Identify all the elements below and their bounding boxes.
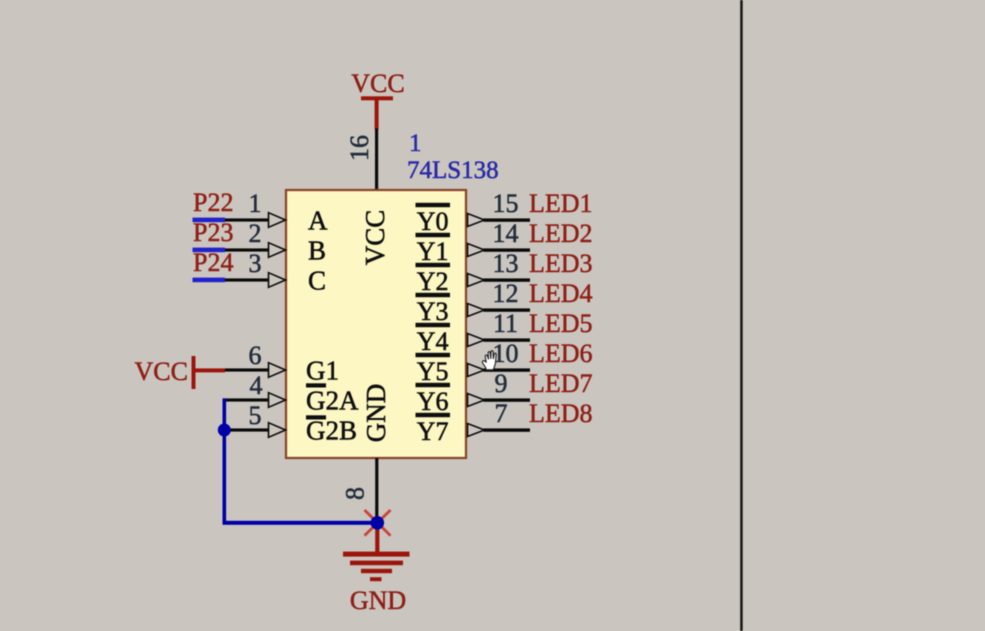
svg-text:1: 1 <box>249 189 262 218</box>
wire pin 7 <box>484 428 531 431</box>
svg-text:G2A: G2A <box>306 385 359 415</box>
pin 14 arrow <box>468 244 485 257</box>
svg-text:LED3: LED3 <box>529 249 593 278</box>
wire pin 5 <box>224 428 269 431</box>
pin 15 arrow <box>468 214 485 227</box>
wire pin 6 <box>225 368 269 371</box>
wire pin 1 <box>225 218 269 221</box>
svg-text:G2B: G2B <box>306 415 357 445</box>
svg-text:Y1: Y1 <box>417 237 449 266</box>
wire pin 9 <box>484 398 531 401</box>
svg-text:7: 7 <box>495 399 508 428</box>
pin name Y7 overline <box>416 413 451 417</box>
svg-text:Y3: Y3 <box>417 297 449 326</box>
junction dot at GND node <box>371 516 385 530</box>
svg-text:Y5: Y5 <box>417 357 449 386</box>
svg-text:1: 1 <box>409 130 422 157</box>
pin 3 arrow <box>269 273 286 288</box>
wire: VCC net to pin 16 <box>375 129 378 190</box>
svg-text:LED6: LED6 <box>529 339 593 368</box>
pin name G2A overline <box>306 383 326 387</box>
wire stub P23 (blue) <box>193 248 226 253</box>
pin 1 arrow <box>269 213 286 228</box>
pin 5 arrow <box>269 423 286 438</box>
svg-text:GND: GND <box>361 384 391 443</box>
pin 9 arrow <box>468 394 485 407</box>
pin name Y4 overline <box>416 323 451 327</box>
pin name Y6 overline <box>416 383 451 387</box>
ground symbol bar 1 <box>343 552 410 557</box>
svg-text:8: 8 <box>341 487 370 500</box>
svg-text:9: 9 <box>495 369 508 398</box>
pin name Y5 overline <box>416 353 451 357</box>
svg-text:VCC: VCC <box>360 210 390 266</box>
wire horizontal blue (to GND junction) <box>223 521 379 525</box>
IC U1 74LS138 body <box>286 190 466 458</box>
wire pin 13 <box>484 278 531 281</box>
ground symbol bar 3 <box>361 569 392 573</box>
svg-text:13: 13 <box>493 249 519 278</box>
svg-text:LED7: LED7 <box>529 369 593 398</box>
svg-text:LED2: LED2 <box>529 219 593 248</box>
svg-text:12: 12 <box>493 279 519 308</box>
svg-text:Y4: Y4 <box>417 327 449 356</box>
pin name Y2 overline <box>416 263 451 267</box>
svg-text:LED5: LED5 <box>529 309 593 338</box>
svg-text:74LS138: 74LS138 <box>407 157 499 184</box>
svg-text:6: 6 <box>249 341 262 370</box>
svg-text:16: 16 <box>345 135 374 161</box>
svg-text:P24: P24 <box>193 248 233 277</box>
svg-text:5: 5 <box>249 401 262 430</box>
pin 2 arrow <box>269 243 286 258</box>
pin 11 arrow <box>468 334 485 347</box>
pin name Y1 overline <box>416 233 451 237</box>
svg-text:VCC: VCC <box>351 69 404 98</box>
pin 12 arrow <box>468 304 485 317</box>
pin name Y0 overline <box>416 203 451 207</box>
ground stub wire <box>375 523 379 553</box>
pin name Y3 overline <box>416 293 451 297</box>
ground symbol bar 2 <box>350 561 403 566</box>
wire pin 15 <box>484 218 531 221</box>
pin 6 arrow <box>269 363 286 378</box>
junction dot at pin 5 <box>218 424 231 437</box>
pin 7 arrow <box>468 424 485 437</box>
svg-text:2: 2 <box>249 219 262 248</box>
power port VCC (left) stub wire <box>194 368 225 372</box>
svg-text:Y2: Y2 <box>417 267 449 296</box>
wire pin 8 to GND <box>375 458 378 523</box>
svg-text:G1: G1 <box>306 355 339 385</box>
svg-text:11: 11 <box>493 309 518 338</box>
pin 10 arrow <box>468 364 485 377</box>
wire stub P22 (blue) <box>193 218 226 223</box>
no-ERC red cross at GND node <box>365 510 391 536</box>
svg-text:LED4: LED4 <box>529 279 593 308</box>
wire pin 2 <box>225 248 269 251</box>
svg-text:A: A <box>308 205 328 235</box>
svg-text:15: 15 <box>493 189 519 218</box>
svg-text:LED1: LED1 <box>529 189 593 218</box>
svg-text:P23: P23 <box>193 218 233 247</box>
pin 13 arrow <box>468 274 485 287</box>
wire pin 12 <box>484 308 531 311</box>
wire pin 10 <box>484 368 531 371</box>
ground symbol bar 4 <box>370 577 382 581</box>
svg-text:14: 14 <box>493 219 519 248</box>
svg-text:C: C <box>308 265 326 295</box>
svg-text:P22: P22 <box>193 188 233 217</box>
svg-text:Y7: Y7 <box>417 417 449 446</box>
pin name G2B overline <box>306 415 326 419</box>
wire pin 4 <box>223 398 270 401</box>
pin 4 arrow <box>269 393 286 408</box>
svg-text:B: B <box>308 235 326 265</box>
power port VCC (left) bar symbol <box>192 356 196 389</box>
svg-text:Y0: Y0 <box>417 207 449 236</box>
svg-text:VCC: VCC <box>135 357 188 386</box>
svg-text:GND: GND <box>350 586 406 615</box>
svg-text:3: 3 <box>249 249 262 278</box>
power port VCC (top) stub wire <box>375 99 379 130</box>
svg-text:4: 4 <box>250 371 263 400</box>
svg-text:LED8: LED8 <box>529 399 593 428</box>
wire pin 3 <box>225 278 269 281</box>
mouse hand cursor <box>482 351 496 370</box>
divider line (sheet edge) <box>740 0 743 631</box>
wire pin 11 <box>484 338 531 341</box>
wire stub P24 (blue) <box>193 278 226 283</box>
wire pin 14 <box>484 248 531 251</box>
wire vertical blue (pins 4/5 to GND net) <box>223 398 227 524</box>
power port VCC (top) bar symbol <box>361 96 393 100</box>
svg-text:Y6: Y6 <box>417 387 449 416</box>
